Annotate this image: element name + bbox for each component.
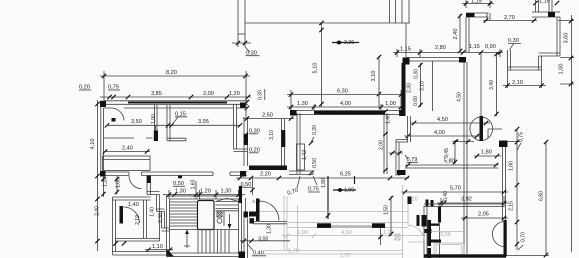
svg-text:1,80: 1,80 — [509, 161, 515, 171]
svg-text:3,40: 3,40 — [489, 80, 495, 90]
dim 2,05 — [461, 217, 508, 219]
duct shaft black block — [397, 170, 406, 175]
svg-text:6,30: 6,30 — [337, 89, 348, 95]
svg-text:4,50: 4,50 — [457, 92, 463, 102]
wall B verticals up — [536, 0, 553, 12]
dim tick line small — [452, 141, 474, 143]
svg-text:1,15: 1,15 — [469, 44, 480, 50]
stubs — [431, 224, 439, 226]
dim 3,92 — [437, 196, 508, 207]
wall vertical pair — [244, 218, 248, 258]
x-box symbol — [217, 212, 222, 217]
east outer wall — [503, 147, 506, 221]
upper treads — [170, 202, 198, 226]
gray box symbol — [395, 234, 400, 240]
dim 2,70 — [483, 20, 537, 22]
elevator rect — [198, 201, 215, 230]
svg-text:1,20: 1,20 — [200, 189, 211, 195]
door bottom stub — [249, 212, 258, 217]
dim 1,80 small — [474, 155, 501, 157]
niche shelf lines — [167, 138, 186, 141]
door jamb bar — [480, 116, 484, 141]
svg-text:2,40: 2,40 — [122, 146, 133, 152]
inner partition — [144, 200, 147, 239]
wall tab — [178, 176, 182, 179]
door bar — [120, 206, 124, 224]
svg-text:1,50: 1,50 — [384, 205, 390, 215]
svg-text:0,00: 0,00 — [259, 236, 269, 242]
dim 5,70 — [401, 191, 508, 193]
svg-text:9,45: 9,45 — [444, 148, 450, 158]
GROUP: stairwell — [163, 179, 253, 256]
GROUP: top-left block — [79, 70, 265, 251]
arrow right — [229, 214, 231, 226]
terrace right wall — [557, 17, 560, 56]
svg-text:1,00: 1,00 — [559, 64, 565, 75]
dim 3,00 / 1,00 vertical right — [558, 15, 574, 252]
svg-text:2,30: 2,30 — [158, 213, 164, 223]
interior wall right column — [234, 104, 237, 149]
south wall of corridor — [424, 204, 504, 207]
terrace left wall — [508, 50, 511, 70]
corner block west — [290, 110, 297, 116]
cabinet lines top right — [216, 202, 239, 211]
door arc — [124, 207, 140, 223]
dim row above stair — [163, 181, 245, 199]
label 0,30 — [245, 47, 250, 52]
room east wall — [384, 113, 387, 174]
room north wall — [291, 111, 405, 115]
corridor bottom thick wall — [249, 166, 287, 171]
corner block top-right — [240, 103, 246, 109]
gray east walls — [403, 185, 409, 258]
north wall — [406, 58, 465, 62]
svg-text:1,00: 1,00 — [344, 188, 354, 194]
shaft line — [480, 53, 482, 118]
svg-text:6,80: 6,80 — [539, 191, 545, 201]
arrow lower-left — [184, 233, 190, 248]
wall A left vertical — [466, 17, 469, 52]
svg-text:1,90: 1,90 — [151, 114, 157, 124]
door bar east — [504, 220, 507, 257]
svg-text:0,60: 0,60 — [413, 96, 419, 106]
svg-text:3,50: 3,50 — [131, 119, 142, 125]
wire from fragment to main wall — [405, 23, 407, 57]
dim 2,10 — [503, 70, 546, 88]
black corner piece — [408, 197, 412, 205]
bottom wall — [113, 252, 170, 256]
corner block top-left — [100, 101, 106, 107]
door head extension — [251, 176, 253, 195]
svg-text:2,70: 2,70 — [504, 15, 515, 21]
svg-text:1,30: 1,30 — [175, 189, 186, 195]
interior wall niche left — [155, 105, 158, 131]
svg-text:3,95: 3,95 — [198, 119, 209, 125]
svg-text:1,70: 1,70 — [340, 253, 350, 258]
svg-text:1,42: 1,42 — [302, 150, 308, 160]
dim 2,40 vertical — [459, 14, 461, 52]
svg-text:1,60: 1,60 — [191, 179, 197, 189]
black door bar — [256, 199, 260, 222]
wall A horizontal — [466, 13, 489, 17]
protrusion walls — [147, 176, 151, 195]
svg-text:0,75: 0,75 — [519, 132, 525, 142]
svg-text:1,10: 1,10 — [152, 244, 163, 250]
top wall — [113, 197, 151, 200]
corner block east — [399, 110, 406, 116]
dim 4,00 — [404, 135, 481, 137]
gray west walls — [284, 196, 298, 250]
interior partition — [432, 61, 434, 111]
svg-text:1,30: 1,30 — [221, 189, 232, 195]
terrace bottom wall — [508, 67, 542, 70]
window jamb blocks — [426, 200, 429, 207]
bottom wall with two door gaps — [101, 172, 247, 176]
svg-text:4,00: 4,00 — [340, 101, 351, 107]
dim 0,30 extension lines — [232, 34, 251, 47]
dim vertical x328 — [327, 176, 329, 219]
svg-text:2,00: 2,00 — [379, 140, 385, 150]
dim 6,80 vertical — [545, 141, 547, 256]
svg-text:2,10: 2,10 — [512, 80, 523, 86]
svg-text:5,10: 5,10 — [313, 63, 319, 74]
dim 8,20 — [100, 71, 250, 118]
corner block bottom-left — [100, 171, 106, 177]
east wall long — [464, 62, 467, 254]
svg-text:2,20: 2,20 — [260, 172, 271, 178]
left wall — [113, 197, 116, 255]
svg-text:3,10: 3,10 — [371, 71, 377, 82]
GROUP: center — [236, 63, 409, 219]
svg-text:2,19: 2,19 — [135, 215, 141, 225]
wall section rectangle — [238, 0, 245, 34]
wire long horizontal line — [245, 22, 410, 24]
svg-text:0,30: 0,30 — [414, 69, 420, 79]
dim row 6,30 — [287, 90, 405, 115]
svg-text:4,10: 4,10 — [90, 139, 96, 150]
dim 1,50 vertical — [390, 196, 392, 236]
dim 3,40 vertical — [496, 52, 498, 116]
dim line 5,10 vertical — [321, 23, 323, 107]
svg-text:3,06: 3,06 — [344, 40, 354, 46]
black door arc — [260, 201, 280, 221]
step corner — [488, 129, 502, 138]
bottom wall black — [424, 254, 506, 257]
corridor east wall — [282, 119, 285, 166]
dim chain x517 — [506, 129, 549, 256]
door arc bottom — [129, 176, 142, 189]
west wall — [424, 206, 427, 258]
dim row 1,30 4,00 1,00 — [287, 104, 405, 110]
corridor west wall — [244, 117, 248, 166]
closet rectangle — [103, 156, 151, 171]
corner block — [499, 141, 508, 148]
dim 4,10 vertical left — [97, 100, 99, 251]
black dim tick x380 — [380, 228, 382, 245]
terrace step band — [539, 53, 561, 56]
inner horizontal — [116, 212, 160, 242]
room bottom wall piece — [289, 171, 313, 175]
inner wall face with door opening — [104, 107, 246, 109]
landing line — [170, 229, 239, 231]
black bits east of stair — [245, 198, 247, 218]
corner block bottom-right — [240, 171, 246, 177]
svg-text:1,80: 1,80 — [481, 150, 492, 156]
duct shaft walls — [396, 140, 408, 177]
svg-text:3,85: 3,85 — [151, 91, 162, 97]
GROUP: lower-left block — [95, 176, 174, 256]
door arc top-left — [111, 108, 124, 121]
svg-text:2,30: 2,30 — [407, 83, 413, 93]
svg-text:0,30: 0,30 — [312, 125, 318, 135]
gray door arc — [408, 226, 425, 243]
room west wall — [297, 113, 300, 174]
dim 2,40 — [105, 151, 150, 153]
gray wall band — [287, 223, 408, 228]
wall thick vertical east — [402, 63, 406, 110]
svg-text:3,00: 3,00 — [564, 33, 570, 44]
duct dim tick — [389, 152, 403, 154]
wall pair below door — [254, 222, 288, 224]
interior wall niche right — [167, 105, 170, 141]
svg-text:1,30: 1,30 — [297, 101, 308, 107]
svg-text:1,40: 1,40 — [386, 114, 392, 124]
svg-text:2,15: 2,15 — [509, 201, 515, 211]
svg-text:2,00: 2,00 — [203, 91, 214, 97]
ext stub x354 — [354, 176, 356, 184]
black window fills — [317, 223, 331, 228]
svg-text:2,40: 2,40 — [453, 29, 459, 40]
long dim line 2,20 / 6,25 — [236, 177, 409, 179]
window section verticals — [390, 0, 410, 23]
dim row 3,50 0,15 3,95 — [107, 124, 240, 126]
svg-text:4,00: 4,00 — [434, 130, 445, 136]
outer walls — [167, 196, 242, 257]
svg-text:1,40: 1,40 — [128, 202, 139, 208]
GROUP: top-right unit — [453, 0, 574, 252]
svg-text:0,40: 0,40 — [443, 191, 449, 201]
svg-text:2,50: 2,50 — [262, 113, 273, 119]
svg-text:4,50: 4,50 — [437, 117, 448, 123]
GROUP: bottom-right rooms — [401, 186, 508, 258]
gray bathtub — [434, 243, 464, 257]
corner black blob — [239, 252, 246, 258]
wall A right step — [487, 13, 490, 21]
corner fill — [167, 249, 175, 257]
svg-text:1,00: 1,00 — [297, 230, 308, 236]
GROUP: top wall fragment — [232, 0, 410, 107]
svg-text:0,30: 0,30 — [258, 90, 264, 100]
wall 5,80 — [405, 165, 499, 168]
gray bottom lines — [264, 251, 403, 255]
partition bar — [438, 207, 441, 223]
svg-text:1,40: 1,40 — [150, 207, 156, 217]
svg-text:0,70: 0,70 — [521, 232, 527, 242]
svg-text:1,20: 1,20 — [229, 91, 240, 97]
black corner block — [250, 218, 255, 223]
svg-text:5,70: 5,70 — [450, 186, 461, 192]
svg-text:1,80: 1,80 — [321, 178, 327, 188]
wall B horizontal — [532, 12, 560, 17]
gray dim line — [282, 235, 427, 237]
wall jog vertical — [408, 116, 411, 142]
svg-text:1,30: 1,30 — [267, 224, 273, 234]
dim 4,50 — [410, 122, 490, 124]
svg-text:8,20: 8,20 — [166, 70, 177, 76]
black bar center — [428, 220, 432, 232]
svg-text:6,25: 6,25 — [340, 172, 351, 178]
shelf line left room — [104, 137, 153, 139]
svg-text:0,50: 0,50 — [312, 158, 318, 168]
elevation 0,00 dim — [240, 240, 290, 242]
left wall — [101, 107, 104, 176]
svg-text:3,92: 3,92 — [461, 197, 472, 203]
svg-text:2,40: 2,40 — [95, 206, 101, 216]
lower treads — [198, 230, 229, 254]
pilaster — [297, 144, 305, 170]
dim row 3,85 2,00 1,20 — [100, 96, 251, 98]
GROUP: gray unit — [239, 176, 428, 258]
dim 2,50 — [243, 118, 294, 120]
gray horizontal upper — [259, 211, 408, 213]
svg-text:3,10: 3,10 — [269, 130, 275, 140]
door arc east — [492, 222, 505, 247]
door arc double leaf — [470, 117, 493, 141]
dim 1,10 — [145, 249, 173, 251]
cabinet chevron — [216, 198, 239, 201]
gray furniture line — [431, 231, 464, 233]
node junction tick — [319, 21, 323, 25]
GROUP: right-middle block — [389, 44, 549, 257]
svg-text:1,00: 1,00 — [385, 101, 396, 107]
svg-text:0,90: 0,90 — [485, 44, 496, 50]
svg-text:1,15: 1,15 — [539, 0, 550, 5]
svg-text:2,80: 2,80 — [435, 45, 446, 51]
svg-text:2,05: 2,05 — [478, 212, 489, 218]
svg-text:1,15: 1,15 — [400, 47, 411, 53]
svg-text:2,06: 2,06 — [440, 232, 451, 238]
terrace right lower wall — [539, 56, 542, 70]
stair east wall black jamb — [239, 186, 242, 203]
dim line 3,10 vertical — [378, 56, 380, 107]
partition line — [223, 211, 225, 226]
circle symbol — [217, 218, 222, 223]
top wall — [104, 101, 249, 105]
interior wall horizontal — [234, 149, 248, 152]
dim row 1,15 2,80 1,15 0,90 — [393, 49, 503, 58]
svg-text:4,60: 4,60 — [341, 230, 352, 236]
